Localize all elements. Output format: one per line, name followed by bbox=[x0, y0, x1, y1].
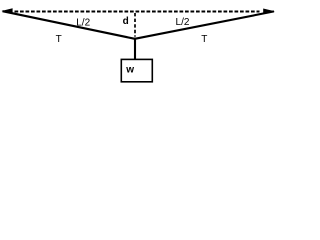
svg-text:L/2: L/2 bbox=[176, 17, 190, 28]
weight box W bbox=[121, 59, 152, 81]
hanger line (vertex to weight box) bbox=[134, 38, 136, 60]
wire left segment (tension T) bbox=[3, 11, 135, 39]
left arrowhead bbox=[1, 8, 12, 13]
sag depth d (dashed vertical) bbox=[134, 13, 136, 37]
svg-text:d: d bbox=[123, 16, 129, 27]
span line L (dashed horizontal double-arrow) bbox=[15, 11, 260, 13]
svg-text:L/2: L/2 bbox=[76, 17, 90, 28]
svg-text:T: T bbox=[56, 34, 62, 45]
svg-text:w: w bbox=[125, 64, 134, 75]
svg-text:T: T bbox=[201, 34, 207, 45]
wire right segment (tension T) bbox=[135, 11, 274, 38]
right arrowhead bbox=[263, 9, 275, 15]
